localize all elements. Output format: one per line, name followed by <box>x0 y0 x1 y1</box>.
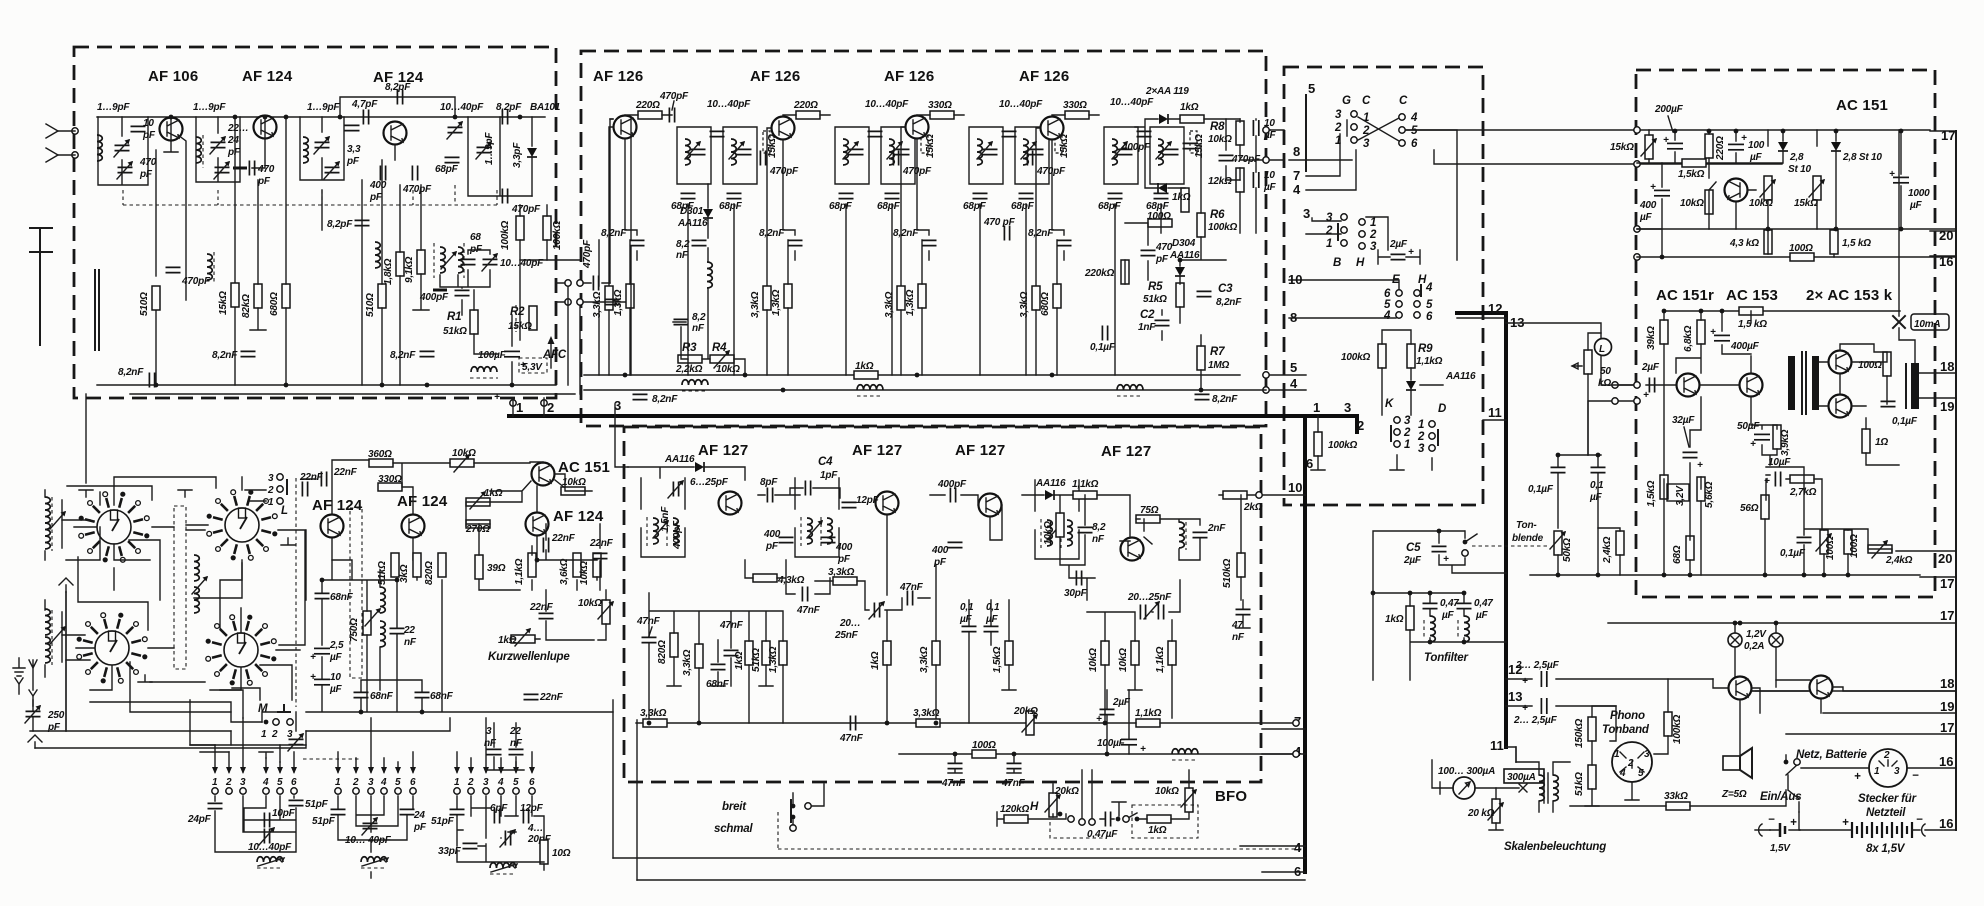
svg-text:220kΩ: 220kΩ <box>1084 268 1114 279</box>
emitter cap 8,2nF stage1 <box>630 240 645 245</box>
wire mesh f <box>278 530 305 645</box>
wire mesh i <box>130 662 231 712</box>
cap 10uF am <box>314 679 330 684</box>
coil dashed bottom <box>471 367 497 372</box>
svg-text:15kΩ: 15kΩ <box>1610 142 1634 153</box>
mech dashes L to M <box>295 478 297 707</box>
line 7 horizontal <box>636 722 1293 724</box>
svg-text:+: + <box>1741 133 1747 144</box>
svg-text:750Ω: 750Ω <box>349 618 360 642</box>
transistor AF127 stage4 <box>1121 538 1144 561</box>
svg-text:25nF: 25nF <box>834 630 859 641</box>
ferrite transformer A coil <box>45 497 50 523</box>
dot E7 <box>1012 752 1017 757</box>
coil cluster3 boxA <box>303 137 308 163</box>
box B left column wires <box>599 119 631 375</box>
svg-text:2× AC 153 k: 2× AC 153 k <box>1806 287 1893 304</box>
amp verticals lower <box>1646 311 1899 575</box>
resistor 9,1k <box>417 250 425 274</box>
svg-text:µF: µF <box>329 684 343 695</box>
AM IF box <box>624 427 1261 782</box>
det vertical wires <box>1125 119 1256 390</box>
svg-text:+: + <box>494 392 500 403</box>
einaus switch <box>1788 775 1799 812</box>
trimmer 10-40pF stage3 <box>1002 131 1017 136</box>
res 2k s4 <box>1223 491 1247 499</box>
FM tuner box <box>74 47 556 398</box>
svg-text:2: 2 <box>271 729 278 740</box>
d301 wires <box>673 184 745 375</box>
svg-text:6: 6 <box>1411 138 1418 150</box>
driver wires <box>1713 679 1956 756</box>
stage4 tank verticals <box>1115 204 1161 375</box>
cap 8,2pF feedback <box>397 90 402 105</box>
svg-text:10kΩ: 10kΩ <box>579 561 590 585</box>
res 510k s4 <box>1237 553 1245 577</box>
svg-text:3: 3 <box>287 729 293 740</box>
svg-text:5: 5 <box>277 777 283 788</box>
svg-text:pF: pF <box>413 822 427 833</box>
emitter wire stage4 <box>1052 140 1064 260</box>
IF transformer variable coils <box>440 247 445 273</box>
IF transformer primary stage1 <box>677 127 711 184</box>
svg-text:51kΩ: 51kΩ <box>751 648 762 672</box>
secondary coil stage3 <box>1023 139 1028 165</box>
svg-text:2µF: 2µF <box>1641 362 1660 373</box>
svg-text:1kΩ: 1kΩ <box>1172 192 1191 203</box>
emitter cap 8,2nF stage2 <box>788 240 803 245</box>
jd am d <box>420 710 425 715</box>
res 56 <box>1761 495 1769 519</box>
transistor AF126 stage3 <box>906 116 929 139</box>
K c2 <box>1394 429 1400 435</box>
cap 8pF <box>767 488 772 503</box>
IF transformer coil 2 <box>458 247 463 273</box>
dashes R2 <box>515 305 517 332</box>
trimmer 10...40pF top <box>448 127 463 132</box>
pot 10k emitter <box>1764 176 1772 200</box>
coil d301 <box>707 262 712 288</box>
res 100 low2 <box>1844 530 1852 554</box>
svg-text:3kΩ: 3kΩ <box>399 564 410 583</box>
svg-text:4: 4 <box>497 777 504 788</box>
svg-text:pF: pF <box>139 169 153 180</box>
svg-text:10…40pF: 10…40pF <box>1110 97 1154 108</box>
transformer 3 coil a <box>1047 520 1052 546</box>
transistor AF124 first <box>254 116 277 139</box>
svg-text:µF: µF <box>985 614 999 625</box>
bus bottom 2 <box>584 389 1266 391</box>
transistor AM2 <box>402 515 425 538</box>
left verticals bottom <box>613 700 637 880</box>
arrow 10k kw <box>598 601 614 619</box>
heavy buses <box>509 313 1506 879</box>
antenna terminal upper <box>72 128 78 134</box>
svg-text:1,1kΩ: 1,1kΩ <box>1072 479 1099 490</box>
dot bottom A 4 <box>425 383 430 388</box>
pointer 47nF <box>649 627 652 636</box>
res 1,1k line7 <box>1136 719 1160 727</box>
resistor 1k top <box>1180 115 1204 123</box>
dot amp4 <box>1781 129 1786 134</box>
svg-text:0,1: 0,1 <box>1590 480 1604 491</box>
svg-text:100Ω: 100Ω <box>1849 534 1860 558</box>
mech dashes C5 to tonblende <box>1472 545 1548 547</box>
g3 c4 <box>498 788 504 794</box>
tf coil b core <box>1457 620 1459 638</box>
cap 68pF primary stage2 <box>839 193 854 198</box>
svg-text:+: + <box>310 652 316 663</box>
svg-text:15kΩ: 15kΩ <box>1194 134 1205 158</box>
line 11 <box>1506 747 1516 762</box>
cap 8,2nF corner <box>149 373 154 388</box>
dot B7 <box>1178 258 1183 263</box>
svg-text:AF 106: AF 106 <box>148 68 198 85</box>
svg-text:33kΩ: 33kΩ <box>1664 791 1688 802</box>
variable cap 470pF <box>118 167 133 172</box>
svg-text:6: 6 <box>529 777 535 788</box>
svg-text:3: 3 <box>1335 109 1342 121</box>
svg-text:0,1µF: 0,1µF <box>1892 416 1918 427</box>
svg-text:68nF: 68nF <box>370 691 394 702</box>
svg-text:51pF: 51pF <box>431 816 455 827</box>
IF transformer primary stage3 <box>969 127 1003 184</box>
input circles L b <box>1612 398 1618 404</box>
netz switch <box>1786 755 1797 775</box>
BFO and breit-schmal strip <box>613 700 1305 880</box>
mesh s <box>190 744 306 746</box>
svg-text:330Ω: 330Ω <box>1063 100 1087 111</box>
box 10mA <box>1911 314 1949 330</box>
input circles edge b <box>1634 398 1640 404</box>
svg-text:+: + <box>1643 390 1649 401</box>
cap 68nF am1 <box>315 593 330 598</box>
svg-text:C: C <box>1399 95 1408 107</box>
svg-text:2nF: 2nF <box>1207 523 1226 534</box>
g1 c3 <box>240 788 246 794</box>
wire 13 to volume pot <box>1506 323 1601 338</box>
ground cluster <box>433 289 447 291</box>
res 3,9k <box>1773 425 1781 449</box>
transformer 2 coil b <box>827 518 832 544</box>
line 20 inner <box>1637 228 1956 230</box>
svg-text:pF: pF <box>346 156 360 167</box>
verticals ac151 <box>1637 130 1901 257</box>
coil arrow g3 <box>491 864 517 872</box>
svg-text:470: 470 <box>257 164 275 175</box>
cap 12pF g3 <box>523 809 528 824</box>
pot 20k line7 <box>1026 711 1034 735</box>
tf cap b <box>1457 603 1472 608</box>
svg-text:100: 100 <box>1748 140 1765 151</box>
svg-text:2,7kΩ: 2,7kΩ <box>1789 487 1817 498</box>
svg-text:H: H <box>1356 257 1365 269</box>
svg-text:47nF: 47nF <box>796 605 821 616</box>
svg-text:St 10: St 10 <box>1788 164 1812 175</box>
svg-text:1: 1 <box>1326 238 1332 250</box>
svg-text:400pF: 400pF <box>937 479 967 490</box>
wire from R1 <box>474 290 498 354</box>
osc coil a <box>380 587 385 613</box>
damping resistor 15k dashed stage3 <box>1055 131 1062 153</box>
svg-text:R3: R3 <box>682 342 697 354</box>
BOTTOM LEFT ROTARY SWITCH BANK <box>77 490 278 686</box>
emitter wire stage2 <box>783 140 795 260</box>
AM IF STRIP <box>628 442 1151 723</box>
res 100 out <box>1883 352 1891 376</box>
svg-text:1kΩ: 1kΩ <box>870 651 881 670</box>
svg-text:AF 126: AF 126 <box>750 68 800 85</box>
svg-text:12pF: 12pF <box>856 495 880 506</box>
res 2,4k tone <box>1616 531 1624 555</box>
dot amp15 <box>1688 573 1693 578</box>
tf coil b <box>1464 616 1469 642</box>
cap 24pF <box>208 803 223 808</box>
cap C5 <box>1432 546 1447 551</box>
am bus wires <box>306 524 613 770</box>
svg-text:22nF: 22nF <box>299 472 324 483</box>
svg-text:1kΩ: 1kΩ <box>855 361 874 372</box>
svg-text:8: 8 <box>1290 310 1297 325</box>
cap 22nF kw <box>539 613 554 618</box>
svg-text:47nF: 47nF <box>839 733 864 744</box>
secondary cap stage4 <box>1164 149 1179 154</box>
res 39 <box>475 555 483 579</box>
res 360 <box>369 459 393 467</box>
cap 2-2,5uF a <box>1541 671 1546 687</box>
svg-text:1000: 1000 <box>1908 188 1930 199</box>
svg-text:2: 2 <box>1883 750 1890 761</box>
dots B bus <box>623 373 628 378</box>
AFC arrowhead <box>548 336 555 344</box>
second bus <box>1637 162 1782 164</box>
dashes from trimmer <box>303 758 360 760</box>
dot amp3 <box>1734 129 1739 134</box>
svg-text:400pF: 400pF <box>672 520 683 550</box>
IF transformer secondary stage2 <box>881 127 915 184</box>
res 10k am3 <box>593 553 601 577</box>
svg-text:schmal: schmal <box>714 823 753 835</box>
AUDIO AMP BOX <box>1406 97 1956 575</box>
cap 470pF mid <box>1141 250 1156 255</box>
svg-text:5: 5 <box>1290 360 1297 375</box>
link small caps <box>606 299 621 304</box>
dot E bus dots <box>647 721 652 726</box>
g2 c3 <box>368 788 374 794</box>
resistor 680 <box>282 284 290 308</box>
svg-text:Kurzwellenlupe: Kurzwellenlupe <box>488 651 570 663</box>
svg-text:17: 17 <box>1940 576 1954 591</box>
bfo verticals <box>1082 770 1092 818</box>
bias resistor 1,3kΩ stage2 <box>784 284 792 308</box>
detector diode bottom <box>1158 183 1167 193</box>
g1 inner box wires <box>215 796 296 852</box>
svg-text:1: 1 <box>1313 400 1320 415</box>
bfo wires b <box>1100 810 1189 819</box>
dot amp13 <box>1720 309 1725 314</box>
resistor R5 <box>1176 283 1184 307</box>
ground wafer2 <box>281 538 295 545</box>
svg-text:68pF: 68pF <box>963 201 987 212</box>
svg-text:22nF: 22nF <box>551 533 576 544</box>
res 100 ohm <box>1790 253 1814 261</box>
svg-text:8pF: 8pF <box>760 477 778 488</box>
terminal 16c line <box>1925 829 1956 831</box>
detector diode top <box>1159 114 1168 124</box>
EH bar <box>1420 285 1422 296</box>
emitter stub T1 <box>164 141 178 152</box>
cap 33pF g3 <box>463 843 478 848</box>
res 3,3k s1 <box>695 644 703 668</box>
svg-text:1: 1 <box>335 777 341 788</box>
arrow through coils <box>441 251 457 269</box>
emitter cap 8,2nF stage4 <box>1057 240 1072 245</box>
cap 68pF cluster <box>461 259 476 264</box>
T antenna a <box>79 490 93 497</box>
jd am c <box>359 710 364 715</box>
svg-text:1: 1 <box>1404 439 1410 451</box>
svg-text:400µF: 400µF <box>1730 341 1760 352</box>
svg-text:400pF: 400pF <box>419 292 449 303</box>
lamp dot b <box>1774 621 1779 626</box>
resistor 100k boxC <box>1378 344 1386 368</box>
svg-text:3,9kΩ: 3,9kΩ <box>1780 429 1791 456</box>
svg-text:D: D <box>1438 403 1446 415</box>
coil s4 out <box>1179 522 1184 548</box>
svg-text:µF: µF <box>1589 492 1603 503</box>
res 270 <box>466 520 490 528</box>
junction dots main buses <box>154 115 1904 757</box>
svg-text:20…25nF: 20…25nF <box>1127 592 1172 603</box>
C5 top wire <box>1373 531 1464 593</box>
arrow 15k top <box>1641 138 1657 156</box>
D c2 <box>1429 433 1435 439</box>
svg-text:1,3kΩ: 1,3kΩ <box>768 646 779 673</box>
link wires <box>556 283 625 302</box>
dotted box H <box>1050 822 1105 838</box>
svg-text:50µF: 50µF <box>1737 421 1760 432</box>
link lines B to C <box>1263 360 1306 393</box>
dot tf a <box>1408 591 1413 596</box>
svg-text:4: 4 <box>1383 310 1391 322</box>
AA116 pointer <box>1420 384 1443 386</box>
diode AA116 in <box>695 462 704 472</box>
dashed core 2 <box>202 135 204 168</box>
svg-text:0,1µF: 0,1µF <box>1780 548 1806 559</box>
antenna terminal lower <box>72 152 78 158</box>
svg-text:5: 5 <box>1411 125 1418 137</box>
ferrite B frame <box>45 600 62 677</box>
cap 68pF <box>445 157 460 162</box>
svg-text:+: + <box>1854 771 1861 783</box>
resistor 100ohm mid <box>1148 219 1172 227</box>
dot tf e <box>1462 640 1467 645</box>
svg-text:10kΩ: 10kΩ <box>1680 198 1704 209</box>
cap 4,7pF <box>363 110 368 125</box>
svg-text:nF: nF <box>1232 632 1245 643</box>
svg-text:AFC: AFC <box>542 349 567 361</box>
primary coil stage4 <box>1112 139 1117 165</box>
svg-text:10: 10 <box>1288 272 1302 287</box>
mesh o <box>99 492 101 505</box>
svg-text:+: + <box>1764 476 1770 487</box>
bottom rail 17 <box>1530 574 1920 576</box>
C5 switch contact <box>1463 540 1468 545</box>
svg-text:R5: R5 <box>1148 281 1163 293</box>
secondary cap stage3 <box>1029 149 1044 154</box>
terminal 18b line <box>1753 690 1956 692</box>
resistor R9 <box>1407 344 1415 368</box>
res 51k <box>1588 765 1596 789</box>
svg-text:4: 4 <box>1425 282 1433 294</box>
svg-text:100Ω: 100Ω <box>1147 211 1171 222</box>
primary coil stage1 <box>685 139 690 165</box>
cap 12pF <box>842 502 857 507</box>
rf choke bus3 <box>1117 385 1143 390</box>
stage1 tank verticals <box>688 204 734 375</box>
extra wiring bottom-left density <box>66 394 1869 768</box>
transformer 1 cores <box>647 517 667 546</box>
svg-text:6,8kΩ: 6,8kΩ <box>1683 325 1694 352</box>
svg-text:1pF: 1pF <box>820 470 838 481</box>
wire mesh n <box>66 527 100 560</box>
svg-text:R9: R9 <box>1418 343 1433 355</box>
svg-text:10kΩ: 10kΩ <box>578 598 602 609</box>
transformer 1 coil a <box>653 518 658 544</box>
dot tone c <box>1556 573 1561 578</box>
damping resistor 15k dashed stage1 <box>763 131 770 153</box>
line 4 link <box>1269 389 1306 391</box>
terminal 20 line <box>1930 230 1956 232</box>
cap C4 <box>805 481 810 496</box>
pot 15k mid <box>1813 176 1821 200</box>
bias resistor 680Ω stage4 <box>1053 284 1061 308</box>
C5 switch lever <box>1465 534 1477 542</box>
input circles edge a <box>1634 382 1640 388</box>
L contacts <box>277 474 283 480</box>
bias resistor 1,3kΩ stage3 <box>918 284 926 308</box>
svg-text:8,2: 8,2 <box>1092 522 1106 533</box>
svg-text:Netzteil: Netzteil <box>1866 807 1906 819</box>
svg-text:8,2nF: 8,2nF <box>1216 297 1242 308</box>
transistor AC153 <box>1740 374 1763 397</box>
svg-text:BA101: BA101 <box>530 102 561 113</box>
transformer 3 arrow <box>1047 522 1063 540</box>
collector wire stage4 <box>1052 115 1099 116</box>
cap 24pF g2 <box>400 809 415 814</box>
svg-text:1kΩ: 1kΩ <box>498 635 517 646</box>
svg-text:1: 1 <box>1874 766 1880 777</box>
IF transformer primary stage2 <box>835 127 869 184</box>
svg-text:µF: µF <box>329 652 343 663</box>
svg-text:breit: breit <box>722 801 747 813</box>
cap 22nF L <box>302 482 307 497</box>
entry lines 8 7 4 <box>1289 134 1356 190</box>
svg-text:10…40pF: 10…40pF <box>248 842 292 853</box>
resistor 510 <box>152 286 160 310</box>
ferrite A frame <box>45 490 62 560</box>
wafer2 stub <box>186 477 242 525</box>
svg-text:3: 3 <box>268 473 274 484</box>
terminal 18 line <box>1919 372 1956 374</box>
pot 15k top <box>1645 135 1653 159</box>
res 750 rot <box>363 611 371 635</box>
driver trafo coil a <box>1539 775 1544 801</box>
svg-text:Stecker für: Stecker für <box>1858 793 1917 805</box>
pot 1k kw <box>511 635 535 643</box>
antenna dipole symbol <box>46 124 75 162</box>
g3 wires <box>457 796 544 870</box>
